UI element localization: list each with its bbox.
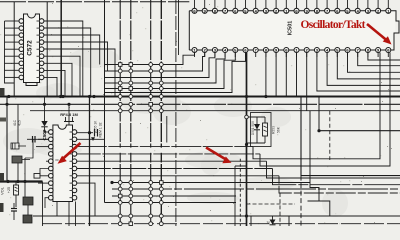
wire U501 pin down x286.3	[285, 53, 287, 97]
wire U501 pin down x265.9	[265, 53, 267, 97]
wire U502 pin3 left	[36, 146, 49, 148]
wire U501 pin20 to row 166	[260, 53, 390, 167]
wire U501 pin x204.7 to grid row y71.0	[105, 53, 205, 72]
diode D554 small	[91, 137, 95, 141]
IC U572 left pins	[19, 19, 24, 80]
subcircuit enclosure box	[251, 113, 272, 147]
grid row y202.5	[105, 202, 237, 204]
dashed net vertical x329.8	[329, 111, 331, 160]
wire U502 pin2 right	[77, 138, 105, 140]
connector grid pads	[118, 63, 163, 226]
top border wire	[0, 1, 189, 3]
net vertical x86	[89, 97, 91, 227]
wire stub x166.8	[166, 116, 168, 143]
wire U501 pin right x337.3	[337, 53, 400, 79]
thick net vertical x61	[60, 0, 62, 97]
wire vertical x47	[46, 2, 48, 97]
net corner x235 down	[235, 166, 247, 226]
wire x42 down	[42, 182, 44, 227]
grid row y189	[112, 188, 400, 190]
wire U502 pin8 down	[77, 183, 95, 216]
IC U502 left pins	[49, 130, 54, 200]
bus column A x120.2	[119, 0, 121, 226]
net row y130.7	[319, 130, 400, 132]
IC U501 top pin stubs	[195, 0, 389, 8]
wire U501 pin x235.3 to grid row y88.5	[105, 53, 236, 89]
crystal Y501	[64, 104, 74, 125]
wire U502 pin10 left	[45, 198, 49, 208]
capacitor C561	[11, 203, 17, 220]
capacitor C552	[27, 136, 49, 143]
dashed row y204	[247, 203, 296, 205]
resistor R541	[11, 143, 26, 149]
wire U502 pin5 left	[46, 160, 49, 162]
wire U501 pin right x316.9	[317, 53, 400, 92]
diode D552	[254, 124, 260, 143]
wire U502 pin8 left	[38, 182, 49, 184]
wire x75.5 down	[75, 202, 77, 227]
svg-text:REM 1 32: REM 1 32	[99, 122, 103, 137]
wire U502 pin5 right	[77, 160, 267, 162]
wire U502 pin3 right	[77, 146, 253, 148]
wire U502 pin2 branch left	[25, 139, 49, 158]
IC U502 body	[53, 125, 73, 202]
wire U501 pin long down x306	[306, 53, 308, 111]
svg-text:R555 1K: R555 1K	[94, 120, 98, 133]
svg-text:R553: R553	[272, 126, 276, 134]
wire vertical x104.5	[104, 0, 106, 203]
IC U501 body	[189, 11, 395, 50]
IC U501 bottom pins	[192, 48, 391, 53]
capacitor C553	[95, 129, 98, 137]
wire U501 pin x225.1 to grid row y83.0	[105, 53, 226, 84]
component box bottom middle	[251, 216, 289, 228]
wires to U572 left pins	[5, 21, 20, 83]
svg-text:D501 50V: D501 50V	[251, 120, 255, 135]
IC U502 inner pin marks	[70, 132, 72, 198]
wire U502 pin4 right	[77, 153, 260, 155]
component box 159	[23, 215, 32, 223]
net vertical x319	[318, 97, 320, 131]
net corner x266 to row 178	[267, 161, 400, 178]
svg-text:41C: 41C	[13, 119, 17, 126]
wire subcircuit top	[248, 117, 265, 124]
wire U501 pin x194.5 to grid row y64.5	[105, 53, 195, 65]
wire U501 pin x245.5 to grid row y92.5	[105, 53, 246, 93]
bus column D x161.3	[160, 0, 162, 226]
svg-text:IC501: IC501	[288, 21, 294, 36]
wire U502 pin7 right	[77, 175, 279, 177]
resistor R553	[263, 123, 268, 143]
thick net vertical x246	[246, 53, 248, 227]
staircase net lower right	[308, 111, 330, 216]
wire U502 pin1 right	[77, 132, 93, 134]
svg-text:56K: 56K	[277, 126, 281, 133]
wire x18	[17, 104, 19, 143]
wires from U572 right pins	[44, 21, 115, 97]
net vertical x301 lower	[300, 176, 302, 226]
diode D551	[41, 97, 47, 133]
resistor R552	[34, 174, 49, 179]
svg-text:Oscillator/Takt: Oscillator/Takt	[301, 19, 366, 31]
wire U502 pin9 left	[43, 189, 49, 191]
left edge mark D	[0, 118, 6, 122]
grid row y182.5	[112, 182, 310, 184]
wire U501 pin right x367.9	[368, 53, 400, 61]
svg-text:30: 30	[267, 221, 271, 225]
wire subcircuit bottom	[247, 143, 266, 145]
IC U501 top pins	[192, 8, 391, 13]
left edge mark A	[0, 88, 5, 96]
wire vertical x178.5	[178, 0, 180, 55]
svg-text:C502: C502	[42, 129, 47, 140]
wire U501 pin right x357.7	[358, 53, 400, 66]
bus column B x130.8	[130, 0, 132, 226]
net corner x240 dashed	[239, 159, 241, 226]
dashed net vertical x280	[279, 193, 281, 226]
IC U572 inner pin marks	[37, 21, 39, 77]
annotation arrow at U502	[58, 143, 81, 164]
net corner x272 to row 184.7	[273, 169, 400, 185]
svg-text:C572: C572	[27, 40, 34, 56]
wire U501 pin right x347.5	[348, 53, 400, 73]
wire U501 pin down x276.1	[275, 53, 277, 97]
left edge mark B	[0, 173, 4, 181]
IC U501 bottom pin stubs	[195, 53, 389, 58]
bus column C x150.7	[150, 0, 152, 226]
bus row y104.3	[0, 103, 400, 105]
wire U502 pin6 left	[40, 169, 49, 177]
wire U501 pin x214.9 to grid row y77.5	[105, 53, 215, 78]
wire U502 pin6 right	[77, 168, 273, 170]
IC U502 right pins	[72, 130, 77, 200]
bus row y223.7	[42, 223, 400, 225]
net vertical x7	[6, 97, 8, 182]
svg-text:+25: +25	[7, 187, 11, 193]
net corner x279 to row 193	[279, 176, 400, 193]
net row y175.6	[301, 97, 400, 176]
IC U572 body	[24, 14, 40, 83]
wire U501 pin right x327.1	[327, 53, 400, 86]
wire U501 pin19 to row 158.8	[253, 53, 380, 159]
resistor R561 vertical	[14, 182, 19, 208]
resistor R542	[12, 156, 30, 163]
thick bus left y181.5	[0, 180, 43, 182]
bus row y216	[33, 215, 400, 217]
scan gap on columns	[119, 148, 177, 153]
wire U502 pin1 left	[45, 131, 49, 133]
annotation arrow at net corner	[206, 148, 232, 164]
wire U502 bottom left	[56, 202, 58, 217]
node junction circle on thick net	[245, 115, 249, 119]
wire vertical x14	[13, 2, 15, 97]
left edge mark C	[0, 203, 4, 212]
thick bus y96.5	[0, 95, 400, 97]
component box 158	[23, 182, 33, 217]
IC U572 right pins	[39, 19, 44, 80]
wire x25 to bus	[24, 158, 26, 182]
wire U502 bottom right	[68, 202, 70, 227]
svg-text:VOL: VOL	[0, 186, 5, 195]
wire vertical x175.9	[175, 0, 177, 226]
wire U501 pin down x296.5	[296, 53, 298, 97]
annotation arrow to oscillator	[367, 24, 392, 45]
diode D553	[270, 216, 276, 225]
bus row y110.7	[30, 110, 400, 112]
grid row y196	[112, 195, 236, 197]
